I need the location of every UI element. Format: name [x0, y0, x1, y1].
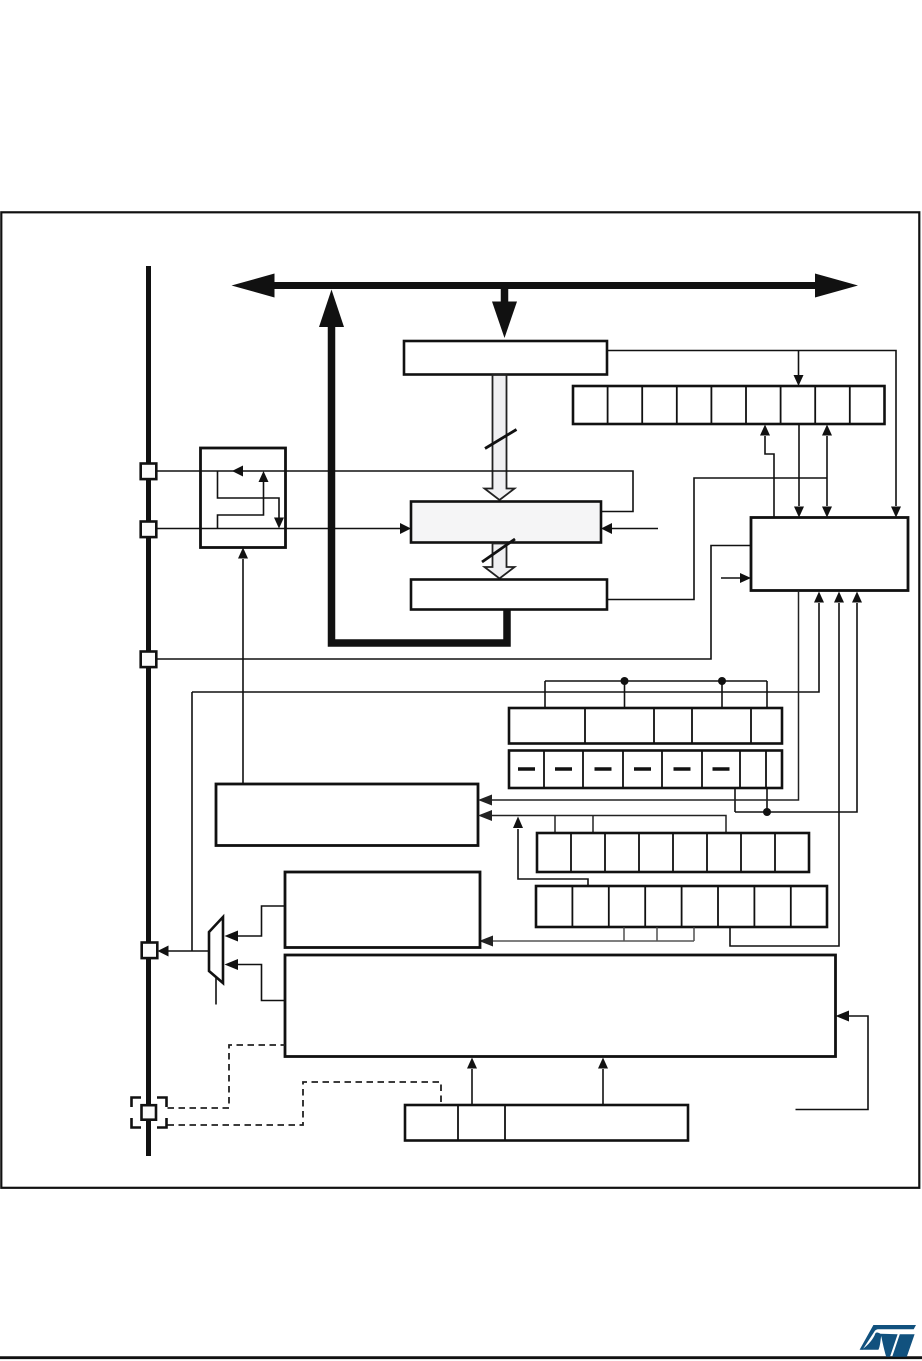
wire RDR to row0/control	[607, 478, 827, 600]
block TDR	[404, 341, 607, 375]
block baud rate generator	[285, 955, 836, 1057]
pin rail	[146, 266, 151, 1156]
mux output to pin	[168, 950, 209, 952]
register row0	[573, 386, 885, 424]
register row2	[509, 751, 782, 789]
wire into shift register right	[611, 528, 658, 530]
pin IrDA	[142, 1105, 157, 1120]
mux input 1	[238, 906, 285, 936]
register row3	[537, 833, 809, 872]
register row5	[405, 1105, 688, 1141]
arrow into control left	[721, 577, 740, 579]
wire into baud generator right	[796, 1016, 869, 1110]
wire branch down into row0	[798, 351, 800, 376]
block shift register (gray)	[411, 502, 601, 543]
junction dot 1	[621, 677, 629, 685]
wire row2 to control	[734, 788, 736, 812]
mux input 2	[238, 965, 285, 1001]
pin SW-RX	[142, 943, 158, 959]
block receiver control	[216, 784, 478, 846]
thick L wire to bus	[332, 326, 508, 643]
wire CK line	[157, 546, 751, 660]
gray wire B over row3	[492, 816, 726, 834]
wire TDR to guard-register loop	[607, 351, 896, 507]
block swap	[201, 448, 286, 548]
ST logo	[860, 1325, 916, 1357]
wire control to row0 (jog)	[765, 436, 774, 518]
node line with junction dots	[545, 680, 767, 682]
wire left riser to mux output	[191, 692, 193, 951]
bus write arrow (thick up)	[319, 290, 344, 328]
pin RX	[141, 522, 157, 538]
swap internal path A	[218, 471, 280, 518]
pin CK	[141, 652, 157, 668]
wire row5 to generator 1	[471, 1069, 473, 1105]
swap internal path B	[218, 482, 264, 529]
wire RX line	[157, 528, 401, 530]
wide gray arrow 2	[485, 544, 515, 579]
wire row4 jog up-arrow	[518, 829, 588, 886]
dashed wire 1	[168, 1045, 286, 1108]
wire long horizontal to control	[192, 603, 819, 692]
mux	[209, 917, 223, 983]
slash 1	[485, 430, 517, 449]
figure frame	[1, 212, 919, 1188]
slash 2	[482, 539, 515, 562]
mux select stub	[215, 978, 217, 1005]
block USART interrupt control	[285, 872, 480, 948]
pin IrDA bracket	[132, 1098, 167, 1128]
wide gray arrow 1	[485, 375, 515, 500]
junction dot 2	[718, 677, 726, 685]
wire row5 to generator 2	[602, 1069, 604, 1105]
block transmit control	[751, 518, 908, 591]
footer rule	[0, 1356, 922, 1359]
bus read arrow (thick down)	[492, 287, 517, 338]
wire row4 to control right	[730, 603, 839, 946]
data bus (bidirectional)	[232, 274, 859, 298]
register row1	[509, 708, 782, 744]
wire TX line	[157, 471, 633, 512]
gray wire C row4 to box B	[623, 927, 625, 941]
wire row0 to control	[798, 424, 800, 506]
block RDR	[411, 580, 607, 610]
wire receiver control to swap	[242, 559, 244, 784]
pin TX	[141, 464, 157, 480]
dashed wire 2	[168, 1082, 442, 1125]
register row4	[536, 886, 827, 927]
gray wire A into receiver control	[492, 591, 799, 801]
junction dot 3	[763, 808, 771, 816]
swap internal left arrowhead	[232, 466, 243, 477]
